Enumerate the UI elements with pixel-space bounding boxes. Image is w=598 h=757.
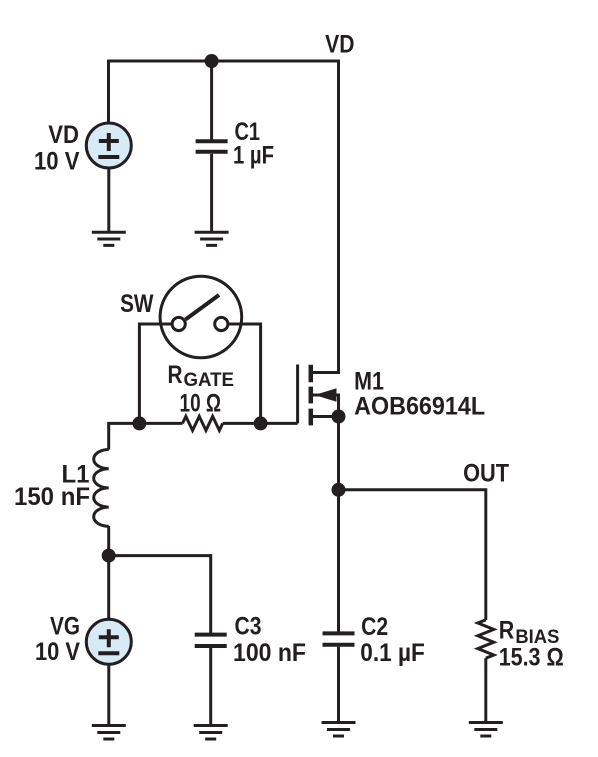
svg-text:GATE: GATE bbox=[184, 370, 235, 391]
node junction dot L1 / C3 bbox=[102, 549, 116, 563]
wire L1 bottom to VG bbox=[107, 526, 110, 620]
ground below C3 bbox=[194, 726, 228, 740]
label L1 value 150 nF bbox=[14, 483, 90, 511]
label M1 bbox=[354, 368, 384, 396]
svg-text:R: R bbox=[168, 361, 183, 389]
label VG source name bbox=[50, 613, 80, 641]
svg-text:AOB66914L: AOB66914L bbox=[354, 392, 485, 420]
ground below VD source bbox=[92, 232, 126, 245]
svg-text:10 Ω: 10 Ω bbox=[180, 390, 222, 418]
wire C2 top lead bbox=[337, 490, 340, 633]
capacitor C1 bbox=[196, 141, 228, 152]
node OUT label bbox=[463, 460, 509, 488]
capacitor C3 bbox=[195, 635, 227, 646]
node junction dot MOSFET source bbox=[332, 410, 346, 424]
capacitor C2 bbox=[323, 633, 355, 644]
svg-text:OUT: OUT bbox=[463, 460, 509, 488]
svg-text:VG: VG bbox=[50, 613, 80, 641]
wire VD source top lead bbox=[107, 60, 110, 124]
label VG source value 10 V bbox=[35, 638, 80, 666]
node VD label bbox=[325, 31, 354, 59]
wire C2 bottom lead bbox=[337, 647, 340, 722]
wire VG bottom lead bbox=[107, 664, 110, 725]
svg-text:C3: C3 bbox=[235, 613, 262, 641]
wire drain vertical from top rail bbox=[337, 60, 340, 375]
svg-text:0.1 µF: 0.1 µF bbox=[360, 639, 425, 667]
label C2 value 0.1 uF bbox=[360, 639, 425, 667]
wire switch left lead bbox=[139, 324, 172, 423]
resistor RBIAS zigzag bbox=[478, 620, 494, 658]
ground below C1 bbox=[195, 232, 229, 245]
wire switch right lead bbox=[228, 324, 261, 423]
svg-text:M1: M1 bbox=[354, 368, 384, 396]
wire C3 bottom lead bbox=[209, 648, 212, 725]
ground below C2 bbox=[322, 723, 356, 737]
label RBIAS bbox=[499, 617, 560, 649]
wire gate-wire to L1 branch bbox=[109, 423, 140, 449]
switch SW bbox=[160, 276, 242, 358]
wire C1 top lead bbox=[210, 61, 213, 141]
node junction dot gate-wire right bbox=[254, 416, 268, 430]
wire RBIAS bottom lead bbox=[484, 658, 487, 722]
transistor M1 MOSFET bbox=[298, 365, 339, 426]
label C2 bbox=[361, 613, 388, 641]
svg-text:SW: SW bbox=[120, 290, 154, 318]
label C1 bbox=[235, 118, 261, 146]
node junction dot top rail / C1 bbox=[205, 54, 219, 68]
svg-text:VD: VD bbox=[48, 121, 79, 149]
svg-text:150 nF: 150 nF bbox=[14, 483, 90, 511]
label C1 value 1 uF bbox=[233, 142, 274, 170]
svg-text:1 µF: 1 µF bbox=[233, 142, 274, 170]
label C3 value 100 nF bbox=[233, 639, 306, 667]
inductor L1 bbox=[94, 450, 109, 527]
ground below RBIAS bbox=[469, 723, 503, 737]
svg-text:100 nF: 100 nF bbox=[233, 639, 306, 667]
wire OUT horizontal bbox=[339, 490, 486, 620]
node junction dot gate-wire left bbox=[132, 416, 146, 430]
ground below VG bbox=[92, 726, 126, 740]
svg-text:R: R bbox=[499, 617, 515, 645]
wire gate-wire left segment to resistor bbox=[139, 422, 182, 425]
svg-text:10 V: 10 V bbox=[35, 638, 80, 666]
wire top rail VD bbox=[109, 60, 339, 63]
label RGATE bbox=[168, 361, 235, 391]
svg-text:VD: VD bbox=[325, 31, 354, 59]
node junction dot OUT bbox=[332, 483, 346, 497]
label VD source name bbox=[48, 121, 79, 149]
wire C1 bottom lead bbox=[210, 154, 213, 232]
label M1 part AOB66914L bbox=[354, 392, 485, 420]
label RBIAS value 15.3 ohm bbox=[499, 644, 564, 672]
svg-text:C2: C2 bbox=[361, 613, 388, 641]
label VD source value 10 V bbox=[34, 148, 80, 176]
wire MOSFET source to OUT node bbox=[337, 417, 340, 491]
svg-text:15.3 Ω: 15.3 Ω bbox=[499, 644, 564, 672]
label SW bbox=[120, 290, 154, 318]
label C3 bbox=[235, 613, 262, 641]
voltage source VG bbox=[86, 619, 131, 664]
label L1 bbox=[62, 461, 90, 489]
voltage source VD bbox=[86, 123, 131, 168]
resistor RGATE zigzag bbox=[183, 416, 223, 430]
wire gate-wire right segment to MOSFET gate bbox=[223, 422, 298, 425]
wire junction to C3 bbox=[109, 556, 211, 634]
label RGATE value 10 ohm bbox=[180, 390, 222, 418]
wire VD source bottom lead bbox=[107, 168, 110, 232]
svg-text:10 V: 10 V bbox=[34, 148, 80, 176]
